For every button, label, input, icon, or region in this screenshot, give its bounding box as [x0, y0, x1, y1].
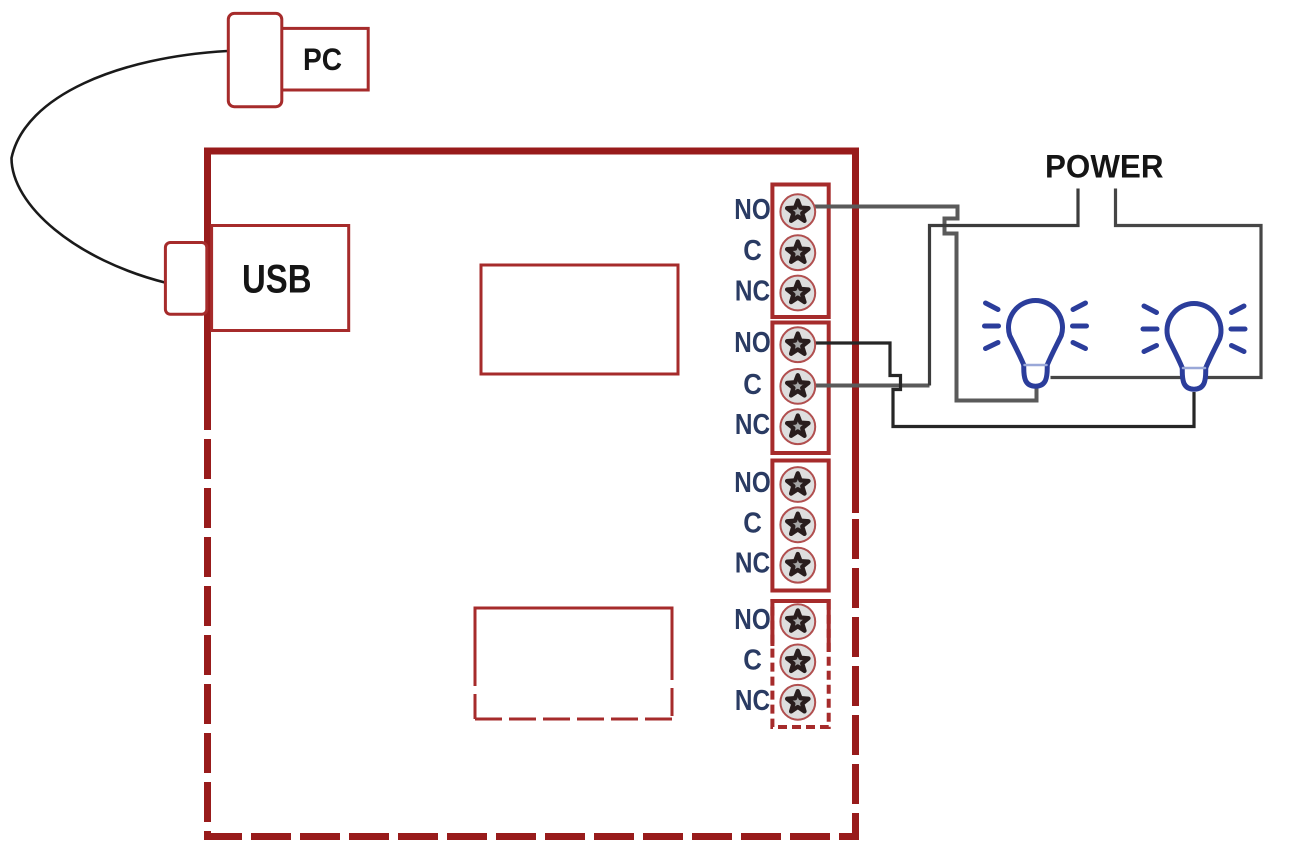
svg-text:USB: USB [242, 258, 312, 302]
svg-text:C: C [743, 235, 762, 267]
svg-text:NO: NO [734, 327, 770, 359]
svg-text:NC: NC [735, 409, 770, 441]
svg-text:NC: NC [735, 685, 770, 717]
svg-text:NC: NC [735, 276, 770, 308]
svg-text:NO: NO [734, 194, 770, 226]
svg-text:C: C [743, 369, 762, 401]
svg-text:NO: NO [734, 604, 770, 636]
svg-text:C: C [743, 644, 762, 676]
svg-text:C: C [743, 507, 762, 539]
svg-text:NC: NC [735, 548, 770, 580]
svg-text:NO: NO [734, 467, 770, 499]
svg-text:PC: PC [303, 41, 342, 77]
svg-text:POWER: POWER [1045, 149, 1164, 185]
